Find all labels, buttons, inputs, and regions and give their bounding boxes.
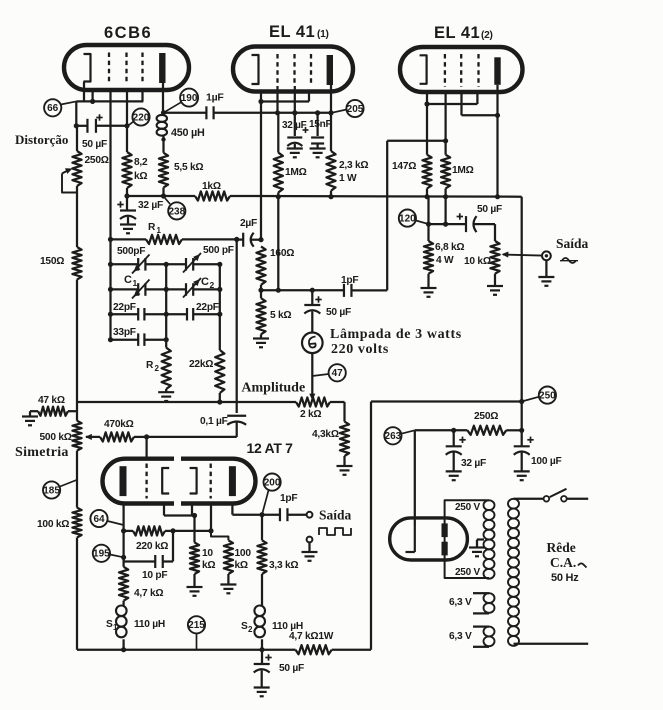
svg-text:kΩ: kΩ [202,560,215,571]
winding mains primary [508,499,519,646]
node anode1 / 220k junction [121,528,126,533]
node 470k right [144,434,149,439]
ground under 5k [253,339,269,348]
label 50uF out plus [457,213,463,219]
label Saida (sine) [556,236,589,251]
node row3 mid [164,312,169,317]
label 22pF right [196,302,219,313]
resistor 47k [38,407,68,416]
svg-text:64: 64 [93,514,105,525]
wire RC row4 [111,339,167,341]
symbol plug squiggle [578,563,587,567]
wire 100k bottom / bottom rail left [76,538,78,650]
test point 250 [539,387,556,404]
ground under 15nF [310,149,326,158]
label 32uF plus (EL41) [303,127,309,133]
resistor 100k (12AT7) [224,540,233,574]
test point 195 [93,545,110,562]
svg-text:(2): (2) [481,30,493,41]
capacitor 32uF (psu) [446,446,462,455]
wire 2.3k link [330,113,332,151]
ground under 100k (12AT7) [220,585,236,594]
wire 500k to 100k [76,451,78,508]
svg-text:2,3 kΩ: 2,3 kΩ [339,160,368,171]
node row1 mid [164,262,169,267]
svg-text:4,7 kΩ: 4,7 kΩ [134,588,163,599]
svg-text:250Ω: 250Ω [85,155,109,166]
wire 1pF out lead [262,514,306,516]
wire 6CB6 anode pin [161,83,166,115]
label 1k [202,181,221,192]
label 50uF (cathode) [82,139,107,150]
wire mains top lead [514,498,544,500]
wire RC row1 [111,263,220,265]
tube EL41(1) grid 2 (dashed) [293,54,295,86]
svg-text:66: 66 [47,103,59,114]
node 32uF psu junction [451,428,456,433]
svg-text:100 kΩ: 100 kΩ [37,519,69,530]
svg-text:4,3kΩ: 4,3kΩ [312,429,339,440]
node 2.3k rail junction [328,194,333,199]
wire mains switch to line [567,498,589,500]
capacitor 1uF (osc output) [206,106,213,119]
tube EL41(1) grid 3 (dashed) [310,54,312,86]
svg-text:220 kΩ: 220 kΩ [136,541,168,552]
wire bottom rail [77,649,296,651]
tube EL41(2) label [434,24,493,42]
wire 15nF gnd stem [316,144,318,149]
label Simetria [15,445,69,460]
label 2uF [240,218,257,229]
wire EL41(1) cathode pin [260,92,262,240]
inductor 450uH [157,115,167,142]
svg-text:6,3 V: 6,3 V [449,631,472,642]
node R1 left [108,237,113,242]
label 250V top [455,502,480,513]
ground under 32uF (EL41) [287,149,303,158]
label R2 [146,360,160,373]
wire test point 195 link [110,555,124,558]
node row2 mid [164,287,169,292]
wire 6CB6 grid2 pin [126,88,128,126]
label 10k line1 [202,548,213,559]
wire EL41(2) grid1 pin [444,92,446,155]
ground under 10k output [487,286,503,295]
svg-text:6CB6: 6CB6 [104,24,152,42]
label S1 110uH [134,619,165,630]
potentiometer 250ohm [72,151,81,186]
svg-text:200: 200 [264,478,281,489]
resistor 150ohm [72,247,81,280]
svg-text:110 µH: 110 µH [134,619,165,630]
node anode2 output node [259,512,264,517]
wire 47k leads [30,411,77,416]
wire 450uH to 5.5k [162,136,164,153]
wire 6CB6 pin bus [76,101,143,125]
wire 100k gnd stem [227,574,229,584]
wire 250ohm wiper [62,168,77,192]
wire oscillator bottom rail [77,401,296,403]
tube 12AT7 cathode2 [190,468,197,494]
wire 50uF bottom stems [261,650,264,687]
svg-text:250 V: 250 V [455,567,480,578]
svg-text:EL 41: EL 41 [434,24,480,42]
tube 12AT7 grid2 (dashed) [210,464,212,499]
resistor 8.2k [122,152,131,188]
label 6.3V second [449,631,472,642]
wire 6.8k gnd stem [427,274,429,288]
label 50uF (output) [477,204,502,215]
label 220k [136,541,168,552]
winding filament 2 [484,627,495,647]
label 33pF [113,327,136,338]
resistor 4.3k [340,422,349,456]
node 6CB6 cathode junction [90,99,95,104]
wire EL41(1) anode pin [330,85,332,113]
node 50uF left [74,123,79,128]
label 470k [104,419,134,430]
node grid2 junction [208,528,213,533]
svg-text:22pF: 22pF [196,302,219,313]
wire 15nF stem [316,113,318,136]
svg-text:32 µF: 32 µF [138,200,163,211]
label 150ohm [40,256,64,267]
node 100uF psu junction [519,428,524,433]
node row1 right [217,262,222,267]
label Saida (square) [319,508,352,523]
svg-text:33pF: 33pF [113,327,136,338]
switch mains terminal 2 [561,496,567,502]
label 100k line2 [235,560,248,571]
test point 238 [168,202,185,219]
capacitor 500pF left (variable) [132,255,150,274]
wire 470k right lead [134,436,147,438]
node row3 right [217,312,222,317]
wire EL41(2) grid2-anode tie [462,92,498,115]
resistor R2 [162,348,171,389]
capacitor 22pF left [138,308,144,321]
wire 5.5k bottom lead [162,188,164,197]
label 250V bottom [455,567,480,578]
wire sq ground stem [308,543,310,552]
wire R1 right lead [182,238,237,240]
svg-text:C.A.: C.A. [550,555,576,570]
wire 250ohm wiper stem [62,170,69,174]
wire test point 66 link [61,101,77,104]
wire test point 238 link [165,198,171,205]
resistor 3.3k [257,540,266,574]
tube 12AT7 anode1 bar [120,466,127,496]
tube rectifier anode bar top [442,523,448,537]
svg-text:R: R [148,222,156,233]
resistor 5k [256,298,265,334]
svg-text:1kΩ: 1kΩ [202,181,221,192]
svg-text:22pF: 22pF [113,302,136,313]
svg-text:10 kΩ: 10 kΩ [464,256,491,267]
switch mains lever [550,489,567,497]
wire R1 left lead [111,238,147,240]
wire 100uF psu stems [521,430,523,471]
capacitor 32uF (EL41) [287,138,302,147]
tube rectifier cathode [406,526,415,552]
svg-text:Amplitude: Amplitude [241,381,305,396]
wire 12AT7 anode1 pin [122,504,124,567]
svg-text:250 V: 250 V [455,502,480,513]
svg-text:1µF: 1µF [206,92,224,104]
test point 120 [399,210,416,227]
wire EL41(2) cathode pin [426,92,428,104]
wire 220k to grid2 [173,530,211,532]
resistor 147ohm [422,155,431,189]
label 6.3V first [449,597,472,608]
svg-text:1: 1 [133,278,138,288]
node cap row junction [443,222,448,227]
test point 190 [180,89,198,107]
wire 6CB6 grid1 pin / rail to RC network [109,88,111,239]
test point 215 [188,616,205,633]
resistor 6.8k [424,241,433,274]
label 1pF (sq out) [280,493,297,504]
node lamp branch [310,288,315,293]
tube 12AT7 envelope [103,459,256,504]
resistor 100k (left) [72,508,81,538]
svg-text:(1): (1) [317,29,329,40]
label 2.3k wattage [339,173,357,184]
wire filament1 leads [473,593,489,613]
svg-text:250Ω: 250Ω [474,411,498,422]
label C2 [201,276,215,290]
wire 32uF stem [127,196,128,224]
capacitor 1pF (lamp) [344,284,352,297]
wire output row [429,223,467,225]
wire rectifier output row [415,429,468,431]
svg-text:2 kΩ: 2 kΩ [300,409,321,420]
node 8.2k / 32uF junction [124,193,129,198]
label 500pF left [117,246,145,257]
svg-text:Lâmpada de 3 watts: Lâmpada de 3 watts [330,327,462,342]
wire 0.1uF to 470k [147,436,237,438]
svg-text:220: 220 [133,112,150,123]
label 500k [40,432,72,443]
resistor 1M (EL41-1) [274,153,283,193]
wire 4.3k gnd stem [343,456,345,466]
svg-text:47: 47 [332,368,344,379]
node 1M(1) rail junction [276,194,281,199]
tube EL41(1) cathode [252,55,259,84]
label 8.2k line1 [134,157,148,168]
wire 2.3k bottom lead [330,191,332,197]
node row2 left [108,287,113,292]
capacitor 50uF (output) [466,216,477,232]
wire RC row3 [111,313,220,315]
wire 2uF right lead [252,239,262,241]
tube 12AT7 grid1 (dashed) [145,464,147,499]
tube 12AT7 cathode1 [162,468,169,494]
svg-text:470kΩ: 470kΩ [104,419,134,430]
resistor 4.7k [119,567,128,601]
wire 1M(2) bottom lead [444,188,446,196]
capacitor 1pF (sq out) [280,508,288,521]
wire test point 64 link [108,521,124,525]
wire test point 220 link [129,122,134,126]
wire 10pF right lead [163,531,173,562]
label 250ohm [85,155,109,166]
tube 12AT7 anode2 bar [229,466,236,496]
label 32uF plus [117,201,123,207]
wire 1M(1) link down [277,113,279,153]
wire test point 215 stem [196,633,198,649]
label 3.3k [269,560,298,571]
label 10pF [142,570,167,581]
label 1pF (lamp) [341,275,358,286]
wire 4.7k to S1 [122,601,124,606]
label 100k line1 [235,548,252,559]
wire anode2 to 3.3k [261,515,263,541]
node 50uF right / 8.2k top [124,123,129,128]
label S1 [106,619,118,632]
ground under 32uF (6CB6) [120,225,136,234]
svg-text:15nF: 15nF [309,119,331,130]
svg-text:S: S [106,619,113,630]
inductor S1 110uH [116,606,127,638]
wire 10k gnd stem [193,574,195,587]
wire 8.2k top lead [126,126,128,152]
label C1 [124,274,138,288]
node tap row 1M link [276,288,281,293]
tube EL41(2) grid 2 (dashed) [460,54,462,87]
svg-text:100 µF: 100 µF [531,456,561,467]
tube EL41(2) cathode [420,55,427,84]
svg-text:C: C [124,274,132,286]
wire lamp cap stems [311,290,313,332]
wire 3.3k to S2 [261,574,263,606]
label Amplitude [241,381,305,396]
label Rede [547,540,576,555]
label 160ohm [270,248,294,259]
node anode1 / 10pF junction [121,555,126,560]
node B+ / feed junction [519,399,524,404]
svg-text:100: 100 [235,548,252,559]
ground under 50uF bottom [254,688,270,697]
node EL41(1) grid1 node [275,110,280,115]
test point 64 [90,510,107,527]
node R1 right / 2uF left [234,237,239,242]
svg-text:50 µF: 50 µF [326,307,351,318]
capacitor 2uF [237,233,254,247]
svg-text:S: S [241,621,248,632]
svg-text:8,2: 8,2 [134,157,148,168]
svg-text:6,8 kΩ: 6,8 kΩ [435,242,464,253]
node S2 rail [259,647,264,652]
svg-text:160Ω: 160Ω [270,248,294,259]
wire 2k right lead [330,402,345,422]
wire RC middle rail [165,264,167,347]
svg-text:500pF: 500pF [117,246,145,257]
wire EL41(1) grid1 pin [276,86,278,113]
wire B+ riser [521,197,523,431]
label 100uF psu plus [527,437,533,443]
label 4.7k 1W [289,631,334,642]
ground under 47k [22,417,38,426]
wire 0.1uF bottom stem [236,423,238,437]
label 50uF (bottom) [279,663,304,674]
svg-text:4,7 kΩ1W: 4,7 kΩ1W [289,631,334,642]
svg-text:Rêde: Rêde [547,540,576,555]
svg-text:10: 10 [202,548,213,559]
svg-text:205: 205 [347,104,364,115]
svg-text:500 kΩ: 500 kΩ [40,432,72,443]
label S2 110uH [272,621,303,632]
tube rectifier anode bar bottom [442,542,448,556]
wire RC right rail [219,264,221,350]
capacitor 50uF (bottom) [254,664,270,673]
wire tap row right / riser to EL41(2) grid [352,141,446,291]
label 32uF (EL41) [282,120,307,131]
label 10k line2 [202,560,215,571]
resistor 470k [100,432,134,441]
label 5.5k [174,162,203,173]
svg-text:50 µF: 50 µF [279,663,304,674]
wire 50uF out right lead [475,224,496,241]
potentiometer 10k (output) [490,241,499,274]
ground under sq output [302,552,318,561]
node EL41(1) grid2 node [292,110,297,115]
wire 250ohm right lead [506,429,521,431]
wire 5k top lead [260,290,262,298]
wire sine jack gnd stem [545,260,547,276]
winding HT secondary [484,500,495,578]
potentiometer 2k (Amplitude) [296,397,330,406]
label 50Hz [551,572,579,584]
label 450uH [171,127,205,139]
capacitor 50uF cathode plus [96,114,102,120]
label Distorcao [15,132,68,147]
svg-text:1 W: 1 W [339,173,357,184]
tube 6CB6 anode bar [159,53,165,83]
label 6.8k [435,242,464,253]
wire test point 120 link [416,221,429,225]
tube 6CB6 grid 3 (dashed) [141,53,143,85]
wire EL41(1) cathode-grid3 tie [261,92,309,102]
node EL41(2) grid node [443,138,448,143]
wire 10pF left lead [124,560,156,562]
label 1M (EL41-1) [285,167,307,178]
node 1M(2) rail junction [443,194,448,199]
wire anode to 1uF [164,112,207,114]
ground under 32uF psu [446,471,462,480]
wire HT box [445,500,489,578]
label 5k [270,310,291,321]
ground under R2 [158,389,174,401]
resistor 1k [195,191,230,200]
tube EL41(2) grid 1 (dashed) [444,54,446,87]
wire lamp to amplitude pot [311,353,313,395]
label 500pF right [203,245,234,256]
wire 160ohm bottom [260,285,262,290]
wire 0.1uF riser [236,239,238,413]
wire amplitude wiper arrow [309,394,315,401]
resistor 160ohm [256,246,265,284]
tube EL41(1) anode bar [327,55,333,85]
label 50uF (lamp) [326,307,351,318]
svg-text:1pF: 1pF [280,493,297,504]
svg-text:47 kΩ: 47 kΩ [38,395,65,406]
label 250ohm psu [474,411,498,422]
capacitor 500pF right (variable) [183,253,201,273]
wire 470k wiper lead [85,434,100,440]
capacitor 33pF [138,333,144,346]
wire S2 bottom [261,639,263,649]
